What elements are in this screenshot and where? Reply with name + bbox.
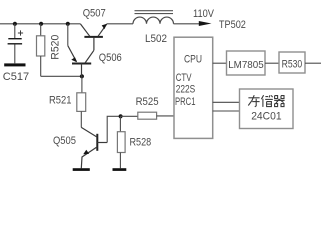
svg-text:TP502: TP502 [219,19,246,31]
svg-text:R525: R525 [136,96,159,108]
label 存储器 (drawn strokes) [248,95,284,107]
svg-text:PRC1: PRC1 [175,96,196,108]
node junction dot A (C517 tap) [13,22,17,26]
label L502 [145,33,167,45]
wire CPU to memory (lower) [213,110,240,112]
CPU box U1 [174,37,213,138]
transistor Q505 [81,127,107,168]
resistor R528 [117,116,125,168]
label R521 [49,95,72,107]
resistor R520 [37,24,45,77]
label C517 [3,71,29,83]
capacitor C517 [8,24,24,64]
svg-text:Q505: Q505 [53,135,76,147]
test point TP502 arrow [199,21,212,26]
svg-text:L502: L502 [145,33,167,45]
wire top rail [0,23,80,25]
node junction dot D (Q506 base / R521) [80,74,84,78]
node junction dot B (R520 tap) [39,22,43,26]
svg-text:R530: R530 [282,58,303,70]
transistor Q507 [80,24,107,50]
ground (under Q505) [73,168,90,171]
ground (under R528) [113,168,127,171]
wire L502 to test point [174,23,202,25]
wire R530 to right edge [305,62,321,64]
memory box 24C01 [240,89,294,129]
wire CPU to memory (upper) [213,101,240,103]
label R520 (rotated) [50,35,62,60]
svg-text:222S: 222S [176,84,196,96]
resistor R525 [121,112,174,119]
label 24C01 [251,110,281,122]
label R528 [130,137,152,149]
svg-text:C517: C517 [3,71,29,83]
svg-text:CPU: CPU [184,54,202,66]
wire LM7805 to R530 [265,62,279,64]
label Q505 [53,135,76,147]
svg-text:Q507: Q507 [83,8,106,20]
svg-text:R528: R528 [130,137,152,149]
label R525 [136,96,159,108]
resistor R530 [279,52,305,73]
wire Q505 base to node E [107,116,118,142]
wire CPU to LM7805 [213,62,227,64]
svg-text:R520: R520 [50,35,62,60]
svg-text:CTV: CTV [176,72,192,84]
label Q506 [99,52,122,64]
label PRC1 [175,96,196,108]
svg-text:24C01: 24C01 [251,110,281,122]
label 222S [176,84,196,96]
ground (under C517) [4,63,25,66]
svg-text:110V: 110V [193,8,215,20]
inductor L502 [107,11,174,24]
label 110V [193,8,215,20]
transistor Q506 [68,24,94,77]
node junction dot E (R528 / R525) [119,114,123,118]
resistor R521 [77,76,86,127]
node junction dot C (Q506 emitter tap) [66,22,70,26]
label TP502 [219,19,246,31]
svg-text:R521: R521 [49,95,72,107]
label Q507 [83,8,106,20]
wire R520 bottom to node D [41,75,82,77]
label CPU [184,54,202,66]
label CTV [176,72,192,84]
regulator LM7805 [227,51,266,75]
svg-text:Q506: Q506 [99,52,122,64]
svg-text:LM7805: LM7805 [228,59,264,71]
